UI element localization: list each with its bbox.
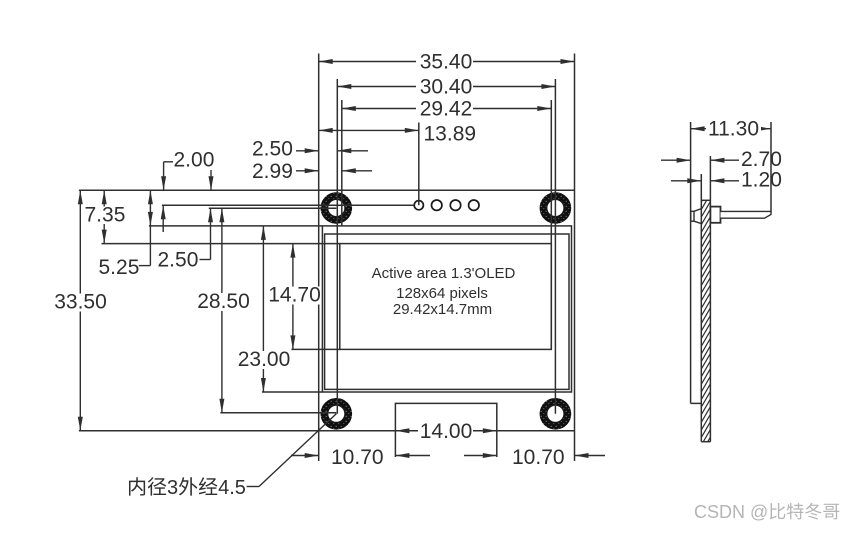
side view glass back / PCB front shared edge (with 1.20 extension) bbox=[700, 174, 702, 442]
svg-text:28.50: 28.50 bbox=[197, 290, 250, 313]
PCB outline top edge (extended left for 33.50/7.35 dims) bbox=[79, 189, 575, 191]
svg-text:13.89: 13.89 bbox=[424, 123, 477, 146]
mounting hole bottom-left bbox=[321, 398, 353, 430]
svg-text:2.00: 2.00 bbox=[174, 149, 215, 172]
svg-text:29.42x14.7mm: 29.42x14.7mm bbox=[393, 301, 492, 318]
active area top edge extension to 7.35 dim bbox=[102, 243, 340, 245]
pin hole 1 bbox=[414, 201, 423, 210]
dimension 1.20 PCB thickness bbox=[671, 180, 739, 182]
side view PCB cross-section hatch bbox=[700, 177, 711, 454]
dimension 14.70 active area height bbox=[292, 244, 294, 350]
svg-text:14.70: 14.70 bbox=[268, 284, 321, 307]
display bezel inner rectangle bbox=[325, 234, 569, 389]
extension line glass left (2.99 / 29.42 dim) bbox=[341, 100, 343, 226]
dimension 2.70 glass+PCB thickness bbox=[661, 159, 739, 161]
active area bottom edge extension to 14.70 dim bbox=[291, 348, 339, 350]
svg-text:2.70: 2.70 bbox=[741, 148, 782, 171]
extension line active area right (29.42 dim) bbox=[550, 100, 552, 349]
mounting hole bottom-right bbox=[540, 398, 572, 430]
mounting hole top-left bbox=[321, 192, 353, 224]
svg-text:23.00: 23.00 bbox=[238, 348, 291, 371]
side view PCB strip bottom cap bbox=[701, 441, 710, 443]
pin hole 2 bbox=[432, 200, 442, 210]
svg-text:14.00: 14.00 bbox=[420, 420, 473, 443]
dimension 10.70 left bbox=[291, 455, 430, 457]
svg-text:7.35: 7.35 bbox=[85, 204, 126, 227]
svg-text:29.42: 29.42 bbox=[420, 98, 473, 121]
pin hole 3 bbox=[450, 200, 460, 210]
dimension 30.40 hole spacing width bbox=[337, 86, 555, 88]
side view PCB back edge (with 2.70 extension) bbox=[709, 156, 711, 442]
glass panel rectangle bbox=[322, 226, 571, 392]
svg-text:2.50: 2.50 bbox=[158, 249, 199, 272]
side view pin header block bbox=[710, 207, 720, 223]
side view PCB strip top cap bbox=[701, 199, 710, 201]
svg-text:Active area 1.3'OLED: Active area 1.3'OLED bbox=[372, 265, 516, 282]
bottom connector outline (14.00 pad area) bbox=[395, 403, 496, 457]
svg-text:2.99: 2.99 bbox=[252, 160, 293, 183]
dimension 11.30 module thickness bbox=[691, 128, 771, 130]
dimension 33.50 overall height bbox=[79, 190, 81, 431]
svg-text:11.30: 11.30 bbox=[708, 118, 759, 141]
dimension 35.40 overall width bbox=[319, 61, 575, 63]
glass top edge extension to 5.25 dim bbox=[149, 225, 323, 227]
PCB outline bottom edge (extended left for 33.50 dim) bbox=[79, 430, 575, 432]
svg-text:10.70: 10.70 bbox=[512, 446, 565, 469]
extension line first pin column (13.89 dim) bbox=[418, 123, 420, 206]
dimension 23.00 glass height bbox=[262, 226, 264, 392]
dimension 13.89 first pin offset bbox=[319, 129, 419, 131]
svg-text:CSDN @: CSDN @ bbox=[694, 502, 768, 522]
svg-text:30.40: 30.40 bbox=[420, 76, 473, 99]
PCB outline right edge (with extensions up and down) bbox=[574, 54, 576, 462]
side view pin end extension line (11.30 dim) bbox=[770, 122, 772, 211]
dimension 7.35 bbox=[103, 190, 105, 243]
glass bottom edge extension to 23.00 dim bbox=[262, 391, 323, 393]
svg-text:4.5: 4.5 bbox=[218, 477, 246, 499]
dimension 14.00 connector width bbox=[395, 430, 496, 432]
dimension 10.70 right bbox=[464, 455, 605, 457]
mounting hole top-right bbox=[540, 192, 572, 224]
active area rectangle bbox=[340, 244, 552, 350]
side view glass bottom cap bbox=[691, 402, 702, 404]
side view pin solder tip bbox=[691, 209, 702, 224]
extension line right hole centre column (30.40 dim) bbox=[554, 79, 556, 414]
svg-text:10.70: 10.70 bbox=[331, 446, 384, 469]
PCB outline left edge (with extensions up to 35.40 dim and down to 10.70 dim) bbox=[318, 54, 320, 462]
pin hole 4 bbox=[469, 200, 479, 210]
side view glass front edge (with 11.30 extension) bbox=[690, 122, 692, 403]
svg-text:5.25: 5.25 bbox=[99, 256, 140, 279]
dimension 29.42 active area width bbox=[342, 108, 552, 110]
svg-text:33.50: 33.50 bbox=[54, 291, 107, 314]
extension line left hole centre column (30.40 dim) bbox=[336, 79, 338, 414]
dimension 28.50 hole spacing height bbox=[221, 208, 223, 412]
svg-text:128x64 pixels: 128x64 pixels bbox=[396, 285, 488, 302]
side view pin shaft bbox=[721, 211, 772, 218]
pin row centre line (2.00 dim line to first pin hole) bbox=[162, 204, 415, 206]
svg-text:1.20: 1.20 bbox=[741, 168, 782, 191]
mounting hole centre line (2.50 dim line to hole centre) bbox=[209, 207, 336, 209]
svg-text:2.50: 2.50 bbox=[252, 138, 293, 161]
svg-text:35.40: 35.40 bbox=[420, 51, 473, 74]
label hole sizes (inner dia 3 outer dia 4.5) with leader bbox=[129, 477, 217, 495]
hole-centre connector line for 28.50 dim bbox=[220, 412, 336, 414]
svg-text:3: 3 bbox=[167, 477, 178, 499]
